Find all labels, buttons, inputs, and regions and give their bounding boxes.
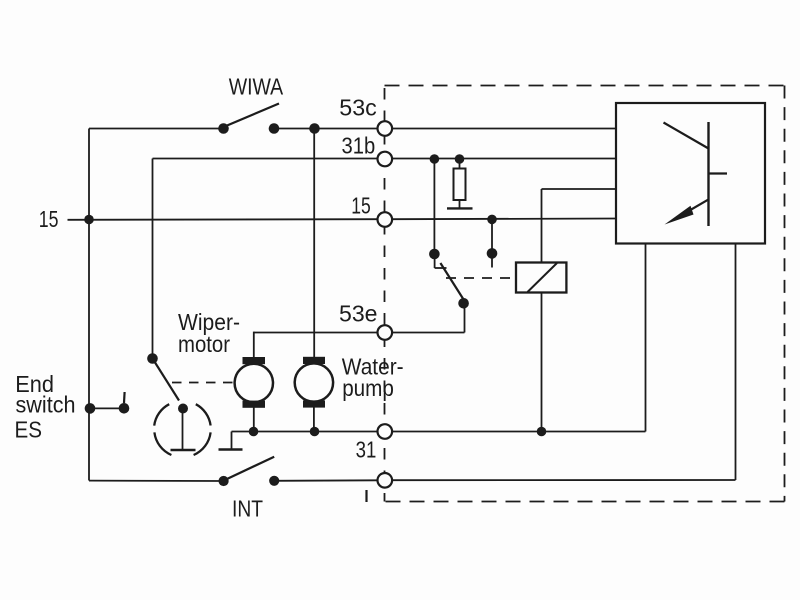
stray tick mark near bottom-left dashed corner <box>365 490 367 502</box>
wire: 31 rail right segment inside relay unit <box>393 431 646 433</box>
wire: water pump feed from WIWA node (x=314.5) <box>313 129 315 359</box>
node: end switch contact <box>119 403 130 414</box>
wire: 53e rail left segment to wiper motor <box>254 332 378 334</box>
wire: 31b rail left segment <box>153 158 378 160</box>
dashed enclosure (relay unit boundary) top side <box>385 85 785 87</box>
wire: relay coil feed from amplifier box (y=189) <box>542 188 617 190</box>
terminal 31b <box>378 152 393 167</box>
wire: changeover common riser (x=464.5) <box>464 304 466 333</box>
wire: 31 rail left segment (motors ground rail) <box>232 431 378 433</box>
wire: WIWA rail middle segment to terminal 53c <box>274 128 378 130</box>
wire: WIWA rail left segment (y=128.5) <box>89 128 224 130</box>
wire: contact seat tick <box>435 267 447 269</box>
wire: relay coil top lead riser (x=541.5) <box>541 189 543 262</box>
park switch housing circle arc lower-right <box>194 432 211 455</box>
wire: INT rail right segment inside relay unit <box>393 479 736 481</box>
node: water pump tap on WIWA rail <box>309 123 320 134</box>
park switch contact post <box>182 409 184 451</box>
mechanical dashed link: relay armature to lever <box>446 277 517 279</box>
wiper motor M1 <box>235 357 273 408</box>
svg-text:53c: 53c <box>339 95 377 121</box>
relay coil diagonal stroke <box>528 263 558 292</box>
park switch housing circle arc upper-right <box>196 404 211 425</box>
dashed enclosure left side (terminal strip line) <box>384 88 386 502</box>
wire: relay coil bottom lead to 31 rail <box>541 292 543 431</box>
svg-text:WIWA: WIWA <box>229 73 284 99</box>
amplifier box U1 outline <box>616 103 765 244</box>
wire: contact stub from 31b (x=434.4) <box>433 159 435 255</box>
water pump M2 bottom brush <box>303 400 325 407</box>
transistor Q1 collector stroke <box>664 123 709 149</box>
node: 31b rail / resistor junction <box>455 154 465 164</box>
node: relay coil on 31 rail <box>537 427 547 437</box>
switch: park switch lever from 31b drop <box>153 359 180 401</box>
wire: terminal 15 feed into amplifier box <box>393 218 617 221</box>
end switch ES contact tick <box>123 392 126 403</box>
svg-text:31b: 31b <box>342 133 376 159</box>
svg-text:pump: pump <box>342 375 394 401</box>
mechanical dashed link: park switch to wiper motor <box>172 382 233 384</box>
switch: relay changeover lever <box>440 263 463 299</box>
node: INT switch fixed contact <box>269 476 279 486</box>
node: park switch inner contact <box>178 404 188 414</box>
node: 31b rail / contact stub junction <box>430 154 440 164</box>
node: changeover lever pivot <box>458 298 469 309</box>
wire: 31b feed into amplifier box <box>393 158 617 160</box>
node: INT switch pivot <box>219 476 229 486</box>
wire: left bus vertical (x=89) <box>88 129 90 481</box>
wire: terminal 15 rail left segment <box>68 218 378 221</box>
svg-text:INT: INT <box>232 496 263 522</box>
wire: contact stub tail below junction <box>491 253 493 267</box>
water pump motor M2 bottom lead to 31 rail <box>313 406 315 432</box>
transistor Q1 emitter stroke <box>674 199 709 219</box>
terminal INT (unlabelled) <box>378 473 393 488</box>
wiper motor M1 bottom brush <box>243 401 266 408</box>
wire: vertical drop from 31b to park-switch lever (x=152.5) <box>152 159 154 359</box>
terminal 31 <box>378 424 393 439</box>
node: park switch moving contact pivot <box>147 353 158 364</box>
park switch housing circle arc lower-left <box>154 432 171 455</box>
svg-text:ES: ES <box>15 417 43 443</box>
dashed enclosure right side <box>784 86 786 502</box>
svg-text:31: 31 <box>356 437 377 463</box>
water pump M2 armature circle <box>295 363 333 401</box>
wiper motor M1 bottom lead to 31 rail <box>253 406 255 432</box>
wire: 31 rail corner down at left end <box>231 432 233 450</box>
svg-text:15: 15 <box>39 206 59 232</box>
ground bar at left end of 31 rail <box>219 448 243 450</box>
switch INT lever (open) <box>224 457 275 481</box>
wiper motor M1 top brush <box>243 357 266 364</box>
svg-text:switch: switch <box>16 392 76 418</box>
node: changeover fixed contact b <box>487 248 498 259</box>
node: 15 rail / left bus junction <box>84 215 94 225</box>
transistor Q1 base stub <box>709 172 728 174</box>
terminal 53e <box>378 325 393 340</box>
end switch ES wire from left bus <box>89 407 124 409</box>
svg-text:motor: motor <box>178 331 230 357</box>
wire: INT rail middle segment to terminal <box>274 479 377 482</box>
wiper motor M1 top lead <box>253 332 255 358</box>
wire: 53e rail right segment to changeover contact <box>393 332 465 334</box>
wire: INT rail left segment <box>89 480 224 482</box>
wire: contact stub from 15 (x=492) <box>491 219 493 253</box>
park switch (end switch) housing circle arc upper-left <box>154 404 169 425</box>
svg-text:53e: 53e <box>339 301 378 327</box>
node: WIWA switch fixed contact <box>269 123 280 134</box>
node: end switch tap on left bus <box>85 403 96 414</box>
water pump motor M2 <box>295 357 333 408</box>
wire: contact stub tail below junction <box>434 254 436 268</box>
wire: amplifier output lead right (x=735.5) down to INT rail <box>735 244 737 481</box>
switch WIWA lever (open) <box>224 104 280 128</box>
node: WIWA switch pivot <box>218 123 229 134</box>
wiper motor M1 armature circle <box>235 364 273 402</box>
node: 15 rail / contact stub junction <box>487 215 497 225</box>
water pump M2 top brush <box>303 357 325 364</box>
node: wiper motor on 31 rail <box>249 427 259 437</box>
svg-text:15: 15 <box>351 193 371 219</box>
wire: 53c feed into amplifier box <box>393 128 617 130</box>
transistor Q1 emitter arrowhead <box>665 206 694 225</box>
terminal 53c <box>378 121 393 136</box>
wire: amplifier output lead left (x=645.5) down to 31 rail <box>645 244 647 432</box>
relay coil K1 body <box>516 263 566 293</box>
terminal 15 <box>378 212 393 227</box>
resistor R1 bottom lead <box>459 200 461 208</box>
park switch ground bar <box>171 449 196 452</box>
transistor Q1 body bar <box>707 122 709 226</box>
node: water pump on 31 rail <box>310 427 320 437</box>
resistor R1 termination bar <box>447 207 473 209</box>
resistor R1 top lead <box>459 159 461 169</box>
terminal circles on dashed strip <box>378 121 393 487</box>
dashed enclosure bottom side <box>385 501 785 503</box>
resistor R1 body <box>454 169 466 201</box>
node: changeover fixed contact a <box>429 249 440 260</box>
